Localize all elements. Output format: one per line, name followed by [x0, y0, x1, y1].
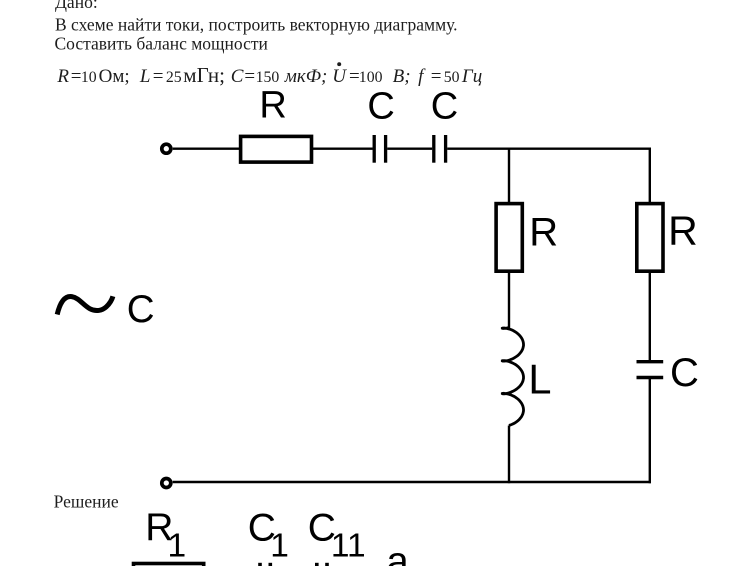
label C (second series capacitor): [431, 86, 458, 128]
wire: right resistor to capacitor: [649, 271, 651, 360]
svg-text:Дано:: Дано:: [55, 0, 98, 12]
label L (inductor): [528, 355, 551, 402]
node label a (bottom fragment): [387, 540, 410, 566]
terminal: top-left input: [162, 144, 171, 153]
formula: given values: [56, 63, 482, 87]
wire: inductor to bottom wire: [508, 426, 510, 484]
wire: between series capacitors: [387, 147, 432, 149]
resistor R top series: [241, 136, 312, 162]
wire: right capacitor to bottom corner: [649, 379, 651, 483]
resistor R1 bottom fragment (box top edge): [134, 564, 204, 566]
wire: input terminal to resistor R: [173, 147, 239, 149]
capacitor C1 bottom fragment (plate tops): [260, 563, 270, 566]
svg-text:R: R: [668, 207, 698, 253]
capacitor C first series (plates): [374, 135, 385, 163]
svg-text:R: R: [529, 211, 558, 255]
wire: left branch drop from top wire: [508, 149, 510, 204]
dot over U (phasor mark): [337, 62, 341, 66]
label C1 (bottom fragment capacitor): [248, 506, 289, 564]
wire: resistor to first capacitor: [312, 147, 373, 149]
terminal: bottom-left input: [162, 479, 171, 488]
text line 1: Дано:: [55, 0, 98, 12]
label C (source): [127, 288, 155, 331]
label C (first series capacitor): [367, 86, 394, 128]
svg-text:L: L: [528, 355, 551, 402]
text line 3: power balance: [55, 33, 268, 53]
resistor R left branch: [496, 204, 522, 272]
svg-text:Решение: Решение: [54, 492, 119, 512]
label R1 (bottom fragment resistor): [145, 506, 186, 565]
text line 2: problem statement: [55, 15, 458, 35]
capacitor C second series (plates): [434, 135, 446, 163]
label R (left branch resistor): [529, 211, 558, 255]
wire: right branch drop from top wire: [649, 148, 651, 205]
source AC symbol (tilde): [57, 296, 113, 314]
capacitor C right branch (horizontal plates): [637, 362, 664, 378]
capacitor C11 bottom fragment (plate tops): [317, 563, 327, 566]
label R (top series resistor): [259, 85, 286, 127]
label C (right branch capacitor): [670, 351, 699, 395]
text Решение: [54, 492, 119, 512]
svg-text:Составить баланс мощности: Составить баланс мощности: [55, 33, 268, 53]
svg-text:1: 1: [168, 528, 187, 565]
inductor L (coil): [502, 328, 523, 426]
svg-text:R: R: [259, 85, 286, 127]
svg-text:1: 1: [270, 528, 289, 565]
svg-text:C: C: [670, 351, 699, 395]
svg-text:C: C: [431, 86, 458, 128]
wire: left resistor to inductor: [508, 271, 510, 328]
svg-text:C: C: [367, 86, 394, 128]
svg-text:R=10Ом;L=25мГн;C=150мкФ;U=100В: R=10Ом;L=25мГн;C=150мкФ;U=100В;f=50Гц: [56, 63, 482, 87]
label C11 (bottom fragment capacitor): [308, 506, 366, 564]
resistor R right branch: [637, 204, 663, 272]
wire: bottom return: [173, 481, 651, 483]
label R (right branch resistor): [668, 207, 698, 253]
wire: second capacitor to top-right corner: [447, 147, 651, 149]
svg-text:a: a: [387, 540, 410, 566]
svg-text:11: 11: [331, 528, 366, 565]
svg-text:C: C: [127, 288, 155, 331]
svg-text:В схеме найти токи, построить: В схеме найти токи, построить векторную …: [55, 15, 458, 35]
